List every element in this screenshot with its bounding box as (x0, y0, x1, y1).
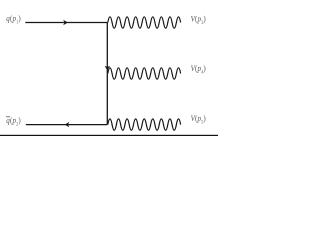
incoming quark line q(p1) (25, 22, 107, 24)
svg-text:V(p5): V(p5) (191, 113, 206, 126)
boson wavy line V(p5) (108, 119, 181, 130)
arrow on qbar(p2) line (points left) (65, 122, 70, 127)
svg-text:V(p3): V(p3) (191, 14, 206, 27)
bottom page rule (0, 135, 218, 136)
arrow on q(p1) line (points right) (63, 20, 68, 25)
svg-text:V(p4): V(p4) (191, 63, 206, 76)
boson wavy line V(p4) (108, 68, 181, 79)
incoming antiquark line qbar(p2) (26, 124, 108, 126)
internal fermion propagator (vertical line) (106, 23, 108, 125)
arrow on internal propagator (points down) (105, 66, 110, 71)
svg-text:q(p1): q(p1) (6, 13, 21, 26)
overbar of qbar (6, 116, 10, 118)
boson wavy line V(p3) (108, 17, 181, 28)
